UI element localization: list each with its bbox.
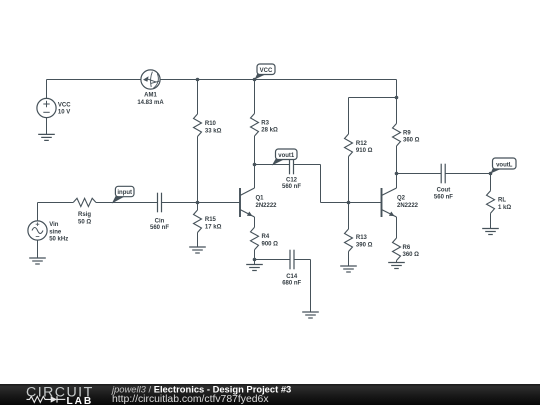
wire [197, 80, 199, 115]
label R15 17 k&#937; [205, 217, 222, 230]
svg-text:1 kΩ: 1 kΩ [498, 205, 511, 211]
footer bar [0, 384, 540, 405]
svg-text:33 kΩ: 33 kΩ [205, 129, 222, 135]
label R13 390 &#937; [356, 235, 373, 248]
resistor R3 [251, 114, 259, 137]
svg-text:R6: R6 [403, 245, 411, 251]
junction [347, 201, 351, 205]
svg-text:Cout: Cout [437, 187, 451, 193]
ground [38, 134, 55, 140]
svg-text:jpowell3 / Electronics - Desig: jpowell3 / Electronics - Design Project … [110, 383, 291, 394]
wire [197, 137, 199, 203]
svg-text:C12: C12 [286, 178, 298, 184]
svg-text:R13: R13 [356, 235, 368, 241]
label R4 900 &#937; [262, 234, 279, 247]
label R10 33 k&#937; [205, 121, 222, 134]
wire [254, 165, 256, 189]
wire [47, 79, 142, 81]
svg-text:Rsig: Rsig [78, 212, 91, 218]
wire [254, 260, 256, 265]
footer url [112, 394, 269, 405]
svg-text:http://circuitlab.com/ctfv787f: http://circuitlab.com/ctfv787fyed6x [112, 394, 269, 405]
wire [255, 259, 291, 261]
wire [396, 217, 398, 238]
wire [197, 233, 199, 248]
wire [254, 217, 256, 227]
resistor RL [487, 191, 495, 214]
label R3 28 k&#937; [261, 120, 278, 133]
wire [38, 203, 74, 221]
resistor R12 [345, 134, 353, 157]
svg-text:14.83 mA: 14.83 mA [137, 100, 164, 106]
svg-text:RL: RL [498, 198, 506, 204]
svg-text:C14: C14 [286, 274, 298, 280]
label Rsig 50 &#937; [78, 212, 91, 225]
label AM1 14.83 mA [137, 93, 164, 107]
svg-text:360 Ω: 360 Ω [403, 252, 420, 258]
logo CIRCUIT text [26, 385, 94, 401]
svg-text:2N2222: 2N2222 [397, 203, 419, 209]
label R6 360 &#937; [403, 245, 420, 258]
wire [396, 174, 398, 189]
node input flag [112, 186, 134, 203]
wire [348, 203, 350, 230]
svg-text:Vin: Vin [49, 222, 59, 228]
transistor Q2 (2N2222) [382, 188, 397, 217]
svg-text:560 nF: 560 nF [434, 195, 453, 201]
svg-text:560 nF: 560 nF [150, 225, 169, 231]
label R12 910 &#937; [356, 141, 373, 154]
svg-text:390 Ω: 390 Ω [356, 242, 373, 248]
resistor R10 [194, 114, 202, 137]
ground [246, 265, 263, 271]
svg-text:VCC: VCC [58, 103, 71, 109]
resistor R4 [251, 227, 259, 250]
svg-text:R9: R9 [403, 130, 411, 136]
ground [29, 258, 46, 264]
svg-text:voutL: voutL [496, 162, 513, 168]
junction [395, 172, 399, 176]
wire [96, 202, 158, 204]
resistor R13 [345, 229, 353, 252]
capacitor C14 [290, 250, 294, 270]
svg-text:input: input [117, 190, 132, 196]
svg-text:Q2: Q2 [397, 196, 406, 202]
wire [348, 157, 350, 203]
wire [46, 80, 48, 99]
label RL 1 k&#937; [498, 198, 511, 211]
logo resistor-diode symbol [27, 396, 66, 402]
svg-text:360 Ω: 360 Ω [403, 138, 420, 144]
label Cin 560 nF [150, 219, 169, 232]
svg-text:R15: R15 [205, 217, 217, 223]
wire [490, 213, 492, 228]
node voutL flag [491, 158, 517, 174]
svg-text:560 nF: 560 nF [282, 184, 301, 190]
label C14 680 nF [282, 274, 301, 287]
label R9 360 &#937; [403, 130, 420, 143]
resistor Rsig [73, 198, 96, 206]
label Vin sine 50 kHz [49, 222, 68, 242]
wire [396, 80, 398, 98]
wire [254, 136, 256, 165]
svg-text:900 Ω: 900 Ω [262, 242, 279, 248]
wire [46, 118, 48, 135]
ground [302, 312, 319, 318]
node VCC flag [255, 64, 276, 80]
resistor R9 [393, 124, 401, 147]
junction [489, 172, 493, 176]
svg-text:680 nF: 680 nF [282, 281, 301, 287]
ground [340, 266, 357, 272]
node vout1 flag [272, 149, 297, 166]
svg-text:28 kΩ: 28 kΩ [261, 128, 278, 134]
junction [196, 201, 200, 205]
wire [197, 203, 199, 211]
voltage source VCC1 (10 V) [37, 98, 56, 117]
resistor R6 [393, 238, 401, 261]
wire [396, 146, 398, 174]
wire [160, 79, 396, 81]
wire [397, 173, 442, 175]
footer title jpowell3 / Electronics - Design Project #3 [110, 383, 291, 394]
wire [396, 98, 398, 124]
svg-text:50 kHz: 50 kHz [49, 236, 68, 242]
svg-text:10 V: 10 V [58, 110, 70, 116]
wire [348, 252, 350, 267]
junction [253, 258, 257, 262]
svg-text:sine: sine [49, 229, 62, 235]
junction [253, 163, 257, 167]
svg-text:VCC: VCC [260, 68, 273, 74]
logo LAB text [67, 396, 94, 405]
svg-text:Cin: Cin [155, 219, 165, 225]
label Cout 560 nF [434, 187, 453, 200]
label Q2 2N2222 [397, 196, 419, 209]
wire [349, 97, 397, 99]
svg-text:vout1: vout1 [278, 153, 295, 159]
capacitor Cout [441, 164, 445, 184]
svg-text:R12: R12 [356, 141, 368, 147]
voltage source Vin (sine 50 kHz) [28, 221, 47, 240]
label C12 560 nF [282, 178, 301, 191]
label VCC 10 V [58, 103, 71, 116]
wire [348, 98, 350, 135]
svg-text:50 Ω: 50 Ω [78, 219, 91, 225]
transistor Q1 (2N2222) [240, 188, 255, 217]
junction [253, 78, 257, 82]
svg-text:Q1: Q1 [256, 196, 265, 202]
ammeter AM1 [141, 70, 160, 89]
wire [396, 261, 398, 263]
svg-text:17 kΩ: 17 kΩ [205, 225, 222, 231]
label Q1 2N2222 [256, 196, 278, 209]
wire [255, 164, 290, 166]
resistor R15 [194, 210, 202, 233]
svg-text:AM1: AM1 [144, 93, 157, 99]
junction [395, 96, 399, 100]
wire [162, 202, 241, 204]
capacitor Cin [158, 193, 162, 213]
ground [189, 247, 206, 253]
ground [482, 229, 499, 235]
svg-text:2N2222: 2N2222 [256, 203, 278, 209]
ground [388, 263, 405, 269]
svg-text:R10: R10 [205, 121, 217, 127]
wire [490, 174, 492, 191]
svg-text:LAB: LAB [67, 396, 94, 405]
wire [254, 80, 256, 114]
svg-text:R3: R3 [261, 120, 269, 126]
capacitor C12 [290, 155, 294, 175]
wire [37, 240, 39, 258]
svg-text:R4: R4 [262, 234, 270, 240]
junction [196, 78, 200, 82]
wire [294, 260, 311, 313]
wire [254, 250, 256, 260]
wire [445, 173, 490, 175]
wire [294, 165, 382, 203]
svg-text:910 Ω: 910 Ω [356, 148, 373, 154]
